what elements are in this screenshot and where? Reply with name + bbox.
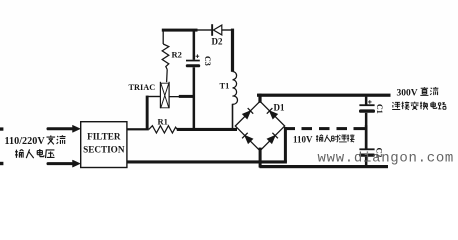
svg-text:110/220V: 110/220V [5,136,46,147]
arrowhead into filter (lower) [73,160,81,167]
bridge diode (top-right, pointing to + corner) [270,111,278,119]
capacitor C2 bottom plate [359,154,375,157]
wire: DC- bottom rail [260,165,389,168]
wire: bridge - corner drop crossing AC line [259,148,262,168]
wire: top horizontal bus (R2/C3 top) [162,29,198,32]
TRIAC symbol: right bar [169,82,170,108]
bridge diode (top-left, pointing to + corner) [243,111,251,119]
TRIAC top lead (slanted) [166,70,169,83]
svg-text:300V: 300V [397,89,418,99]
bridge D1 diamond sides [235,101,284,150]
C1 plus mark [368,100,372,104]
dashed 110V link wire end segment into cap midpoint [354,127,367,130]
wire: thick lead to C3 column [179,95,195,98]
TRIAC symbol: upper triangle [161,83,169,95]
wire: D2 to top-right corner [222,29,234,30]
wire: C1 to midpoint junction [365,113,368,127]
wire: thin lead from top bus to diode D2 [195,29,211,30]
wire: DC+ output rail (300V) [257,94,391,97]
wire: T1 to bottom AC bus [232,104,234,130]
resistor R2 zigzag [162,44,169,70]
C3 plus mark [196,54,200,58]
svg-text:C3: C3 [203,56,212,66]
wire: lower AC input lead [47,162,74,165]
svg-text:SECTION: SECTION [83,144,125,154]
wire: upper AC input lead [47,127,74,130]
capacitor C3 top lead [193,31,196,60]
capacitor C1 bottom plate [359,109,375,112]
resistor R1 zigzag [149,126,177,133]
svg-text:TRIAC: TRIAC [129,83,156,92]
svg-text:D2: D2 [212,37,223,47]
svg-text:R2: R2 [172,50,182,60]
wire: TRIAC right thin lead [169,96,180,97]
wire: vertical up from lower AC line to bridge right corner node [284,127,287,162]
wire: gate vertical to bottom AC bus [146,96,149,130]
wire: solid start of 110V link at bridge right corner [284,127,295,130]
label: 交流 [46,135,55,144]
diode D2 triangle (pointing left) [213,25,221,35]
svg-text:www.diangon.com: www.diangon.com [318,151,455,167]
label: 输入电压 [15,149,24,157]
wire: gate horizontal into TRIAC [147,96,161,97]
capacitor C3 bottom plate [186,64,200,67]
wire: thick bottom AC bus to bridge left corner [177,128,237,131]
TRIAC symbol: lower triangle [161,96,169,108]
svg-text:FILTER: FILTER [87,131,121,141]
diode D2 cathode bar [211,24,213,36]
capacitor C2 top plate [359,148,374,150]
capacitor C1 top lead [365,97,368,105]
wire stub at left edge (upper) [0,127,3,130]
wire: bridge + corner stub up to DC+ rail [258,94,261,103]
label: 输入时连接 [316,135,323,142]
bridge diode (bottom-left, pointing to AC corner) [245,136,253,144]
label: 300V直流 [420,87,428,95]
dashed 110V link wire [302,127,313,130]
wire: thick vertical down to T1 [231,29,234,72]
wire stub at left edge (lower) [0,162,3,165]
wire: bottom AC bus from filter box [127,128,149,130]
svg-text:T1: T1 [220,81,230,91]
wire: lower AC line from filter to 110V node [127,160,287,163]
resistor R2 top lead [162,31,164,44]
svg-text:D1: D1 [274,103,285,113]
label: 连接变换电路 [392,102,400,109]
inductor T1 coil [233,72,238,105]
capacitor C1 top plate [359,104,374,106]
FILTER SECTION box [81,122,127,168]
wire: C2 to DC- rail [365,157,368,167]
arrowhead into filter (upper) [73,125,81,132]
wire: capacitor midpoint junction vertical [365,125,368,148]
svg-text:C1: C1 [375,104,384,114]
capacitor C3 top plate [186,60,200,62]
wire: C3 to bottom AC bus [193,67,196,129]
bridge diode (bottom-right, pointing to AC corner) [267,136,275,144]
svg-text:110V: 110V [293,134,313,144]
TRIAC symbol: left bar [160,82,161,108]
svg-text:R1: R1 [158,117,168,127]
